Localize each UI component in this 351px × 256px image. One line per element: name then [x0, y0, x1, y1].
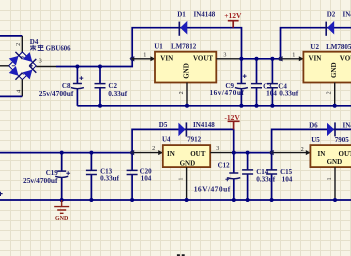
capacitor C4 [267, 59, 278, 106]
U2 pin 1 VIN [278, 51, 304, 61]
svg-text:D1: D1 [177, 11, 186, 19]
power +12V [224, 11, 242, 28]
junction C9 / D1 [239, 57, 243, 61]
bridge D4 pin 3 stub [36, 58, 56, 67]
capacitor C2 [95, 67, 106, 106]
junction C8 top [75, 65, 79, 69]
capacitor C13 [86, 153, 97, 200]
svg-text:2: 2 [152, 145, 155, 152]
svg-text:GBU606: GBU606 [46, 46, 72, 53]
svg-text:VOUT: VOUT [193, 54, 213, 62]
wire D2 branch over U2 [281, 28, 351, 59]
svg-text:2: 2 [15, 43, 22, 46]
junction C19 bottom / GND [60, 198, 64, 202]
diode D6 IN4148 [327, 122, 335, 136]
svg-text:1: 1 [326, 177, 333, 180]
svg-text:2: 2 [326, 91, 333, 94]
svg-text:D2: D2 [327, 11, 336, 19]
svg-text:GND: GND [180, 159, 196, 167]
svg-text:0.33uf: 0.33uf [100, 175, 120, 183]
U1 pin 1 VIN [132, 51, 155, 61]
wire mid ground rail [77, 105, 351, 107]
svg-text:C2: C2 [108, 82, 117, 90]
svg-text:1: 1 [143, 51, 146, 58]
svg-text:VIN: VIN [160, 54, 173, 62]
svg-text:25v/4700uf: 25v/4700uf [39, 89, 74, 98]
capacitor C8 [71, 67, 84, 106]
voltage regulator U1 LM7812 [154, 43, 216, 83]
junction C12 / -12V [232, 151, 236, 155]
voltage regulator U4 7912 [162, 136, 210, 168]
svg-text:D4: D4 [30, 38, 39, 46]
junction U4 pin1 bottom [185, 198, 189, 202]
junction C3 bottom [255, 104, 259, 108]
wire AC input top to bridge pin 2 [0, 35, 22, 37]
capacitor C3 [251, 59, 262, 106]
junction C20 bottom [130, 198, 134, 202]
junction C15 bottom [270, 198, 274, 202]
junction C2 top [98, 65, 102, 69]
U1 pin 3 VOUT [216, 51, 241, 58]
U1 pin 2 GND [178, 83, 187, 106]
wire AC input bottom from bridge pin 4 [0, 95, 22, 97]
U5 pin 2 IN [269, 146, 311, 155]
svg-text:25v/4700uf: 25v/4700uf [23, 176, 58, 185]
D4 type label qiao dui GBU606 [30, 45, 71, 53]
svg-text:IN4148: IN4148 [194, 11, 216, 19]
junction C12 bottom [232, 198, 236, 202]
junction C2 bottom [98, 104, 102, 108]
capacitor C12 [225, 153, 240, 200]
power -12V [224, 113, 240, 129]
svg-text:16v/470uf: 16v/470uf [210, 89, 245, 97]
capacitor C14 [242, 153, 253, 200]
svg-text:3: 3 [216, 145, 219, 152]
junction C13 top [89, 151, 93, 155]
svg-text:0.33uf: 0.33uf [256, 176, 276, 184]
svg-text:C12: C12 [218, 161, 231, 169]
svg-text:0.33uf: 0.33uf [279, 90, 299, 98]
svg-text:4: 4 [15, 90, 22, 93]
capacitor C15 [266, 153, 277, 200]
svg-text:7912: 7912 [187, 136, 202, 144]
junction U5 pin1 bottom [333, 198, 337, 202]
svg-text:IN: IN [318, 150, 326, 158]
svg-text:IN4148: IN4148 [193, 121, 215, 129]
svg-text:104: 104 [141, 175, 152, 183]
junction C19 top [60, 151, 64, 155]
svg-text:+12V: +12V [224, 11, 242, 20]
junction C20 / D5 [130, 151, 134, 155]
U4 pin 1 GND [178, 167, 187, 200]
junction C4 top [270, 57, 274, 61]
junction U2 pin2 bottom [333, 104, 337, 108]
voltage regulator U2 LM7805 [303, 43, 351, 82]
diode D1 IN4148 [179, 21, 187, 36]
svg-text:GND: GND [55, 216, 69, 222]
diode D5 IN4148 [178, 122, 186, 136]
U5 pin 1 GND [326, 167, 335, 200]
svg-text:IN41: IN41 [343, 121, 351, 129]
svg-text:-12V: -12V [224, 113, 240, 122]
bridge D4 pin 1 stub [0, 65, 9, 67]
U4 pin 3 OUT [210, 145, 234, 152]
wire D1 branch over U1 [132, 28, 241, 59]
junction C14 bottom [246, 198, 250, 202]
wire ground bottom rail [0, 199, 351, 201]
wire -12V rail U4 out to U5 in [234, 152, 272, 154]
junction U1 input node [129, 56, 134, 61]
junction C15 / D6 [270, 151, 274, 155]
svg-text:GND: GND [327, 158, 343, 166]
svg-text:OUT: OUT [190, 150, 206, 158]
svg-text:U1: U1 [154, 43, 163, 51]
svg-text:104: 104 [282, 176, 293, 184]
capacitor C19 [55, 153, 70, 200]
svg-text:1: 1 [178, 178, 185, 181]
svg-text:16V/470uf: 16V/470uf [194, 184, 231, 193]
capacitor C20 [127, 153, 138, 200]
junction C13 bottom [89, 198, 93, 202]
svg-text:IN41: IN41 [343, 11, 351, 19]
ground symbol GND [54, 200, 69, 222]
bridge D4 pin 4 stub [15, 80, 22, 97]
junction C4 bottom [270, 104, 274, 108]
svg-text:LM7805: LM7805 [326, 43, 351, 51]
wire D6 branch over U5 [272, 129, 351, 152]
svg-text:2: 2 [178, 91, 185, 94]
svg-text:7905: 7905 [335, 136, 350, 144]
svg-text:GND: GND [183, 63, 191, 79]
clipped text bottom edge [178, 254, 183, 256]
bridge rectifier D4 [9, 52, 37, 80]
voltage regulator U5 7905 [310, 136, 351, 167]
wire bridge output to U1 input corner [56, 59, 132, 67]
svg-text:GND: GND [330, 62, 338, 78]
junction D2 branch [279, 57, 283, 61]
svg-text:1: 1 [292, 51, 295, 58]
junction C3 top [255, 57, 259, 61]
svg-text:U5: U5 [311, 136, 320, 144]
wire +12V rail U1 out to U2 in [241, 58, 280, 60]
junction C14 top [246, 151, 250, 155]
capacitor C9 [235, 59, 248, 106]
wire negative input rail [0, 152, 132, 154]
U2 pin 2 GND [326, 83, 335, 106]
U4 pin 2 IN [129, 145, 163, 155]
svg-text:VIN: VIN [309, 54, 322, 62]
bridge D4 pin 2 stub [15, 36, 22, 53]
wire D5 branch over U4 [132, 129, 234, 152]
svg-text:U4: U4 [162, 136, 171, 144]
svg-text:3: 3 [39, 58, 42, 65]
svg-text:3: 3 [223, 51, 226, 58]
svg-text:0.33uf: 0.33uf [108, 90, 128, 98]
svg-text:OUT: OUT [339, 150, 351, 158]
junction C9 bottom [239, 104, 243, 108]
svg-text:D5: D5 [159, 121, 168, 129]
svg-text:LM7812: LM7812 [171, 43, 197, 51]
svg-text:D6: D6 [309, 121, 318, 129]
clipped label left edge [0, 192, 3, 196]
svg-text:U2: U2 [310, 43, 319, 51]
svg-text:2: 2 [301, 146, 304, 153]
diode D2 IN4148 [326, 21, 334, 36]
svg-text:IN: IN [167, 150, 175, 158]
svg-text:VOUT: VOUT [340, 54, 351, 62]
junction U1 pin2 bottom [185, 104, 189, 108]
